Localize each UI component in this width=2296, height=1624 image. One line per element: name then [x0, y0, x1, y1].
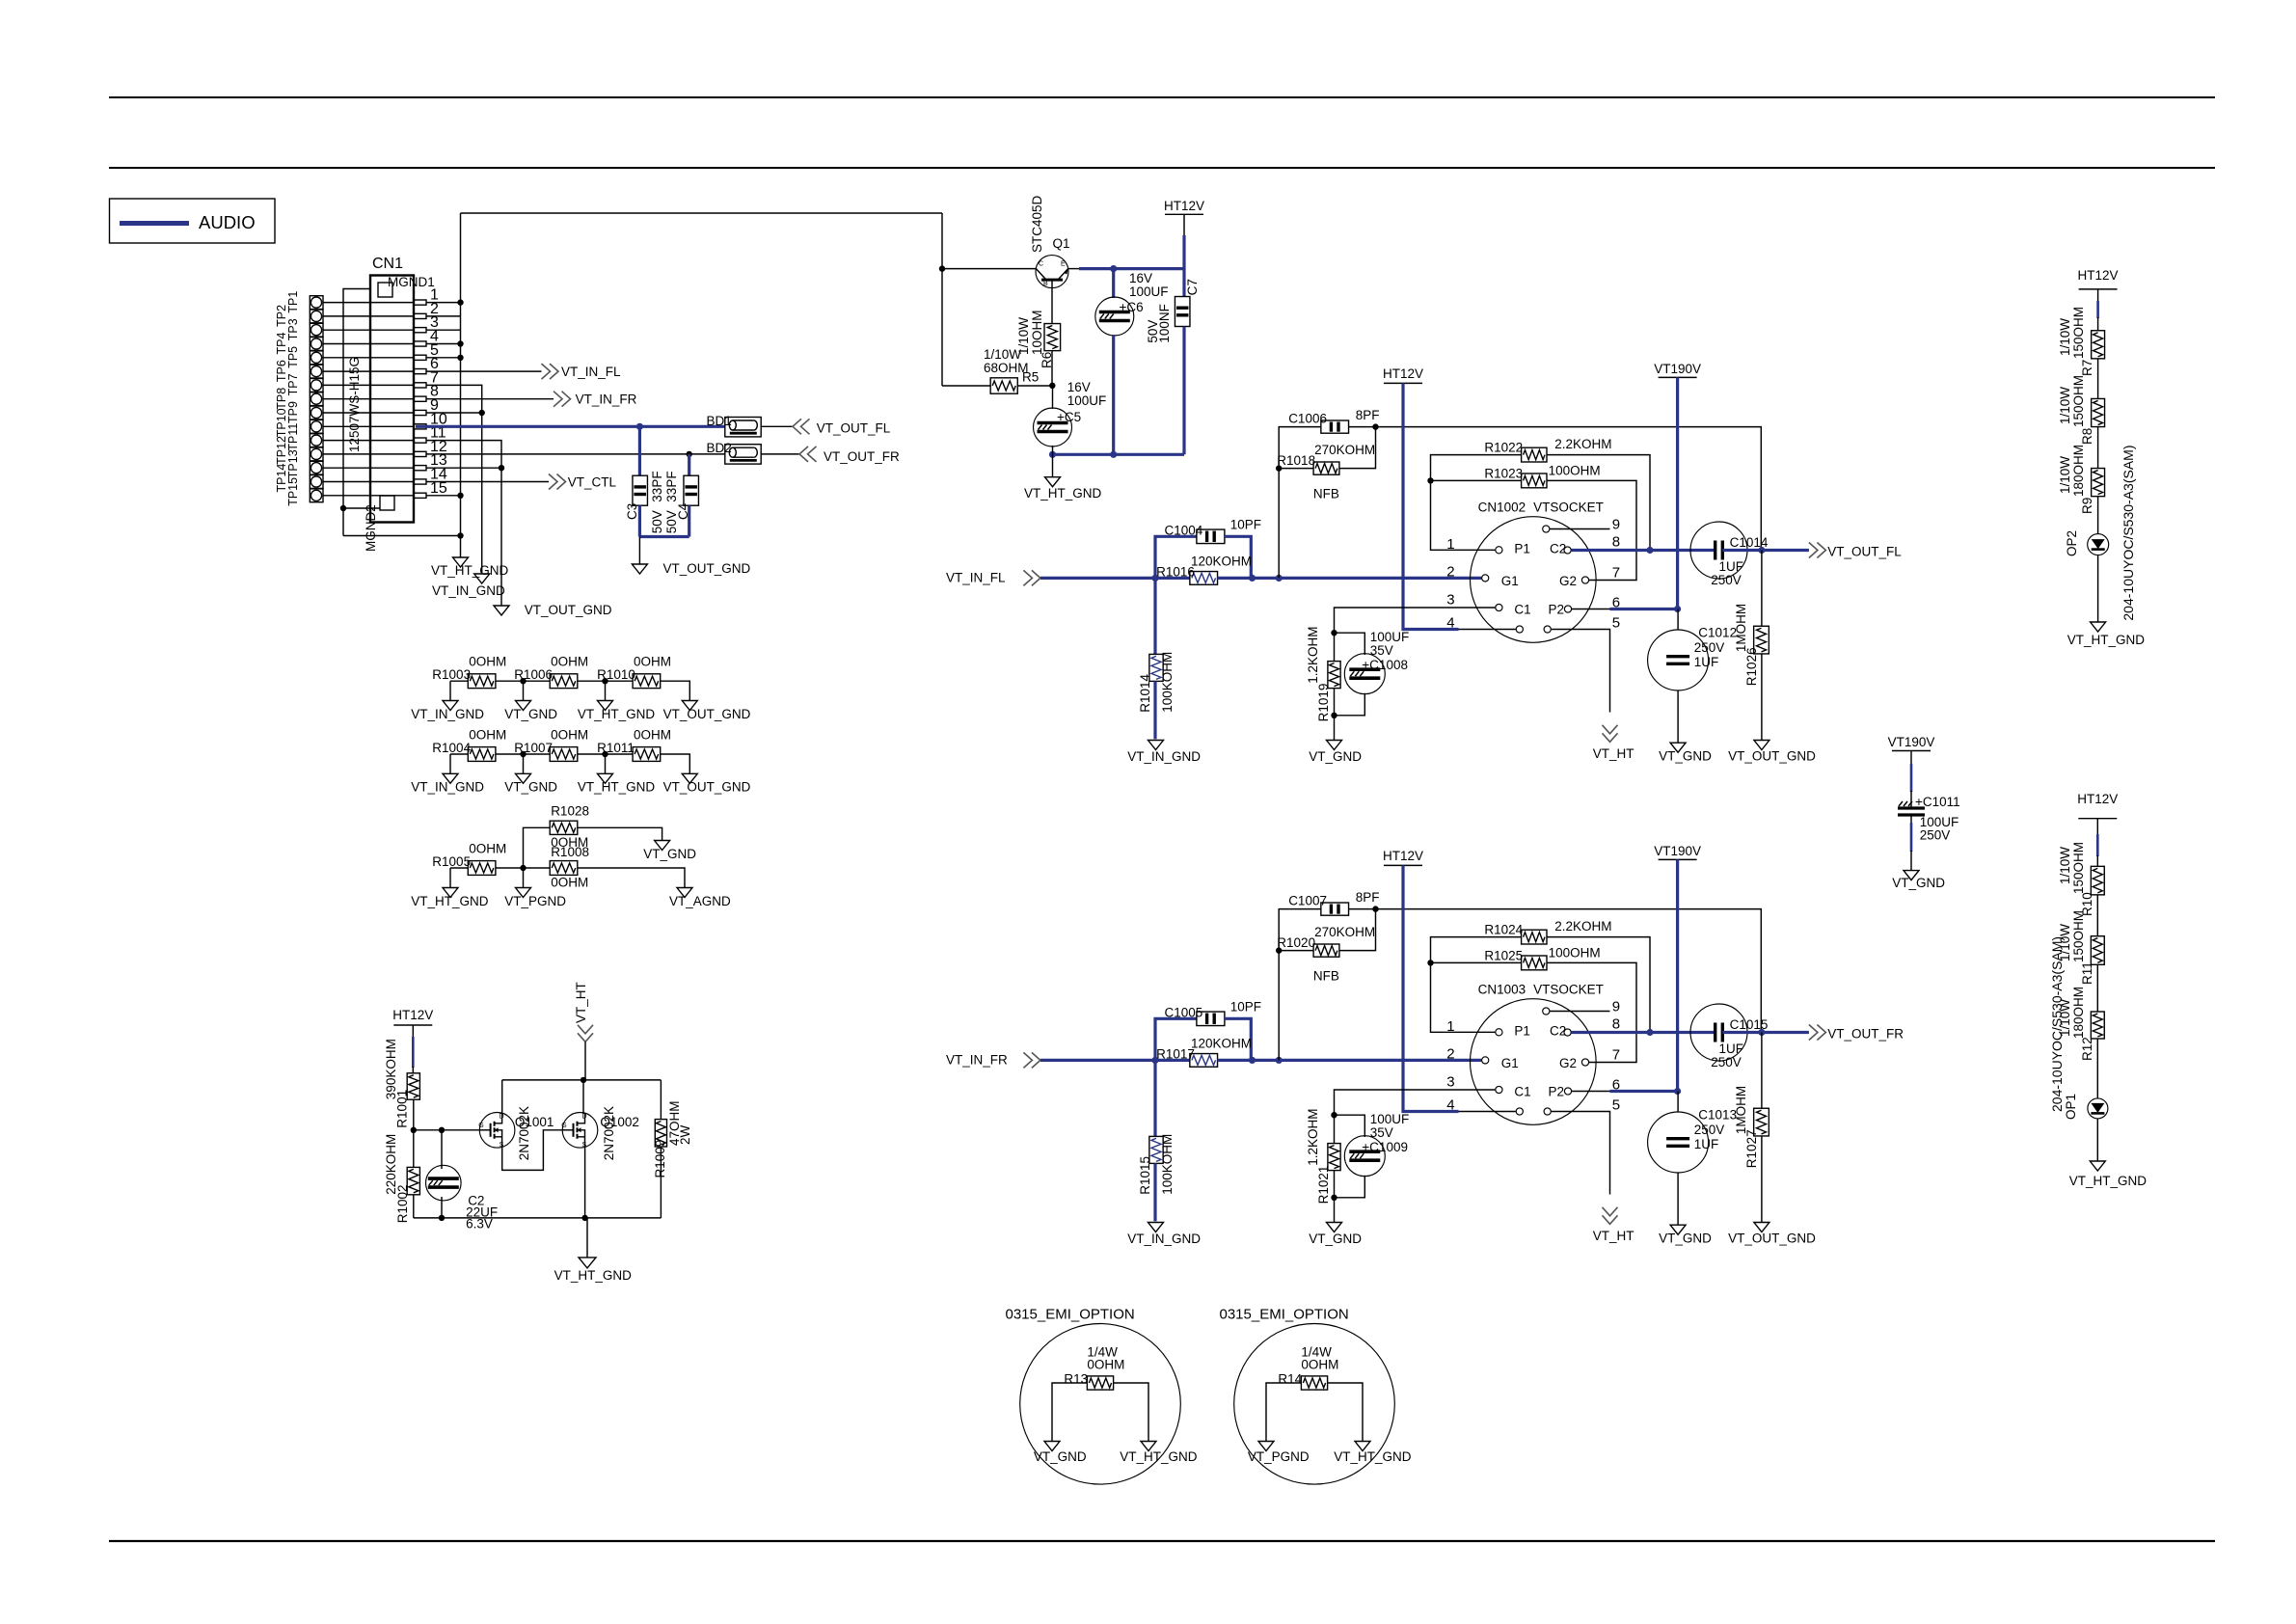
svg-text:STC405D: STC405D [1030, 195, 1044, 253]
svg-text:VT_CTL: VT_CTL [568, 475, 617, 490]
svg-text:1.2KOHM: 1.2KOHM [1306, 627, 1320, 684]
wire R1008 right to VT_AGND [578, 868, 685, 888]
resistor R1002 [407, 1167, 419, 1194]
wire HT12V stem chain2 [2096, 819, 2098, 835]
svg-text:100UF: 100UF [1129, 284, 1169, 299]
svg-text:MGND1: MGND1 [388, 275, 435, 289]
wire pin 13 to VT_OUT_GND bus [426, 467, 501, 469]
svg-text:0OHM: 0OHM [634, 655, 671, 669]
svg-text:R13: R13 [1064, 1372, 1088, 1387]
connector CN1 pin 4 stub [414, 341, 426, 346]
svg-text:7: 7 [1612, 1047, 1620, 1064]
wire R1018 left lead [1279, 468, 1313, 470]
wire HT12V stem chain1 [2097, 289, 2099, 302]
svg-text:0OHM: 0OHM [469, 727, 506, 742]
wire pin 7 to VT_IN_GND bus [426, 385, 482, 574]
svg-text:BD1: BD1 [707, 414, 732, 428]
svg-text:VT_HT_GND: VT_HT_GND [1120, 1449, 1198, 1464]
svg-text:CN1: CN1 [372, 256, 403, 272]
svg-text:4: 4 [1446, 1096, 1454, 1113]
svg-text:1UF: 1UF [1694, 1137, 1719, 1151]
capacitor C5 [1034, 408, 1072, 447]
ground VT_HT_GND under CN1 [453, 557, 469, 567]
socket pin 5 circle [1544, 626, 1551, 633]
resistor R8 [2092, 398, 2105, 426]
svg-text:VT_HT_GND: VT_HT_GND [1024, 486, 1102, 501]
wire shield bus vertical [460, 213, 462, 557]
transistor Q1 STC405D [1036, 256, 1068, 288]
resistor R13 [1087, 1376, 1113, 1390]
resistor R1005 [468, 861, 496, 876]
junction rowB b [602, 751, 608, 757]
wire OP2 to ground [2097, 555, 2099, 622]
wire TP13 to CN1 pin 13 [323, 467, 414, 469]
socket pin C1 circle [1496, 1086, 1502, 1093]
junction bias bottom [1331, 713, 1337, 718]
junction input node [1151, 1057, 1158, 1064]
svg-text:250V: 250V [1711, 573, 1742, 587]
svg-text:VT_GND: VT_GND [504, 780, 557, 795]
resistor R14 [1301, 1376, 1327, 1390]
svg-text:C1006: C1006 [1288, 411, 1327, 425]
test point TP3 [310, 323, 323, 337]
svg-text:R7: R7 [2080, 360, 2094, 376]
svg-text:VT_OUT_GND: VT_OUT_GND [663, 780, 751, 795]
svg-text:R1009: R1009 [653, 1140, 667, 1178]
svg-text:VT_OUT_GND: VT_OUT_GND [1728, 749, 1816, 764]
socket pin 4 circle [1516, 1108, 1523, 1115]
wire rowA link2 [578, 680, 633, 682]
svg-text:C1012: C1012 [1698, 625, 1737, 639]
wire C1011 bottom [1910, 815, 1912, 823]
svg-text:VTSOCKET: VTSOCKET [1533, 983, 1604, 997]
svg-text:50V: 50V [664, 510, 679, 533]
svg-text:R1020: R1020 [1277, 935, 1315, 950]
wire C1004 right (blue) [1225, 536, 1251, 578]
wire R1022 right to pin8 [1547, 455, 1650, 551]
capacitor C1011 [1898, 806, 1925, 809]
junction Q1002 source on rail [581, 1215, 587, 1221]
svg-text:AUDIO: AUDIO [199, 212, 256, 232]
wire C1011 bottom blue [1910, 823, 1913, 852]
svg-text:C3: C3 [625, 503, 639, 520]
wire TP12 to CN1 pin 12 [323, 453, 414, 455]
svg-text:HT12V: HT12V [1383, 366, 1423, 381]
svg-text:R1023: R1023 [1484, 467, 1523, 481]
wire output cap to flag (blue) [1722, 549, 1809, 552]
svg-text:100OHM: 100OHM [1549, 464, 1601, 478]
socket pin G1 circle [1482, 1057, 1489, 1064]
ground VT_HT_GND of chain2 [2090, 1161, 2105, 1171]
svg-text:1UF: 1UF [1719, 1042, 1744, 1056]
wire MGND1 left bus vertical [343, 289, 371, 536]
svg-text:1/10W: 1/10W [2058, 387, 2072, 424]
svg-text:100UF: 100UF [1370, 1112, 1410, 1126]
connector CN1 pin 6 stub [414, 369, 426, 374]
capacitor C1015 [1690, 1004, 1747, 1061]
wire emitter rail (blue) [1079, 267, 1184, 270]
svg-text:C1: C1 [1514, 603, 1530, 617]
svg-text:R1015: R1015 [1138, 1156, 1152, 1195]
resistor R1001 [407, 1073, 419, 1099]
svg-text:HT12V: HT12V [1383, 849, 1423, 863]
svg-text:R1005: R1005 [432, 854, 471, 869]
wire C2 top lead [441, 1130, 443, 1169]
junction input node [1151, 575, 1158, 582]
net flag VT_OUT_FR arrow [1809, 1025, 1826, 1041]
wire pin 11 to VT_OUT_GND bus [426, 441, 501, 606]
wire pin 8 to VT_IN_FR flag [426, 398, 554, 400]
wire C1011 to ground [1910, 851, 1912, 871]
ground VT_OUT_GND of channel [1754, 1223, 1769, 1232]
svg-text:S: S [582, 1142, 587, 1149]
svg-text:8: 8 [1612, 534, 1620, 551]
net flag VT_CTL arrow [549, 474, 566, 490]
wire pin 9 to VT_IN_GND bus [426, 412, 482, 414]
svg-text:R1004: R1004 [432, 741, 471, 755]
net flag VT_HT down arrow [1603, 1207, 1618, 1225]
wire C1004 right (blue) [1225, 1018, 1251, 1060]
resistor R1022 [1522, 447, 1547, 462]
svg-text:50V: 50V [650, 510, 664, 533]
resistor R1011 [633, 747, 661, 762]
svg-text:1/10W: 1/10W [2058, 847, 2072, 884]
svg-text:MGND2: MGND2 [364, 504, 378, 552]
svg-text:VT_HT_GND: VT_HT_GND [411, 894, 489, 908]
capacitor C6 [1095, 297, 1134, 336]
junction VT190V pin6 [1674, 1088, 1681, 1095]
wire R6 to node [1051, 351, 1053, 386]
svg-text:TP5: TP5 [286, 346, 300, 368]
svg-text:VT_AGND: VT_AGND [669, 894, 731, 908]
svg-text:R1016: R1016 [1156, 564, 1195, 579]
wire TP15 to CN1 pin 15 [323, 495, 414, 497]
junction MGND2 bus [340, 505, 346, 511]
ground VT_GND rowA [516, 701, 531, 711]
svg-text:15: 15 [430, 480, 447, 497]
wire HT12V stem black [412, 1025, 414, 1038]
wire output C2 to C1014 (blue) [1572, 1031, 1715, 1034]
ground VT_OUT_GND rowA [682, 701, 697, 711]
wire BD1 to VT_OUT_FL flag [761, 425, 793, 427]
wire R14 left to ground [1266, 1383, 1301, 1442]
net flag VT_OUT_FL arrow [1809, 543, 1826, 558]
wire pin 3 to shield bus [426, 329, 461, 331]
svg-text:C1005: C1005 [1165, 1005, 1203, 1019]
capacitor C1005 [1197, 1012, 1225, 1026]
capacitor C1014 [1690, 522, 1747, 579]
socket pin 4 circle [1516, 626, 1523, 633]
svg-text:0OHM: 0OHM [469, 842, 506, 856]
wire rowA gnd1 [449, 681, 451, 700]
bottom border line [109, 1540, 2215, 1542]
svg-text:VT_GND: VT_GND [643, 847, 696, 861]
tube socket CN1002 circle [1471, 517, 1597, 643]
svg-text:R12: R12 [2080, 1037, 2094, 1061]
svg-text:G2: G2 [1559, 1056, 1577, 1070]
svg-text:10PF: 10PF [1230, 999, 1261, 1014]
capacitor C1006 [1321, 420, 1349, 433]
wire NFB left vertical [1279, 427, 1321, 579]
svg-text:G: G [561, 1123, 566, 1129]
junction pin 1 on shield bus [457, 299, 463, 305]
wire heater black to pin4 [1459, 629, 1516, 631]
svg-text:D: D [500, 1114, 504, 1121]
wire output cap to flag (blue) [1722, 1031, 1809, 1034]
svg-text:180OHM: 180OHM [2071, 987, 2086, 1039]
svg-text:R1024: R1024 [1484, 923, 1523, 937]
svg-text:0OHM: 0OHM [1301, 1358, 1338, 1372]
wire R12 to OP1 [2096, 1039, 2098, 1098]
svg-text:VT_OUT_GND: VT_OUT_GND [663, 561, 751, 576]
wire center node up to R1028 [524, 827, 551, 868]
svg-text:VT_HT_GND: VT_HT_GND [554, 1268, 633, 1283]
svg-text:1/10W: 1/10W [2058, 456, 2072, 494]
svg-text:8PF: 8PF [1356, 408, 1380, 422]
junction C2 top branch [439, 1127, 445, 1133]
connector CN1 pin 3 stub [414, 328, 426, 333]
wire output node down to R1026 [1761, 551, 1763, 627]
ground VT_IN_GND [1148, 741, 1164, 750]
capacitor C7 [1175, 297, 1190, 327]
connector CN1 pin 11 stub [414, 438, 426, 443]
net flag VT_HT down arrow [1603, 725, 1618, 743]
resistor R6 [1044, 324, 1061, 351]
svg-text:204-10UYOC/S530-A3(SAM): 204-10UYOC/S530-A3(SAM) [2049, 936, 2065, 1112]
wire rowB link1 [496, 753, 550, 755]
LED OP2 [2088, 534, 2109, 555]
svg-text:OP1: OP1 [2064, 1094, 2078, 1120]
svg-text:35V: 35V [1370, 1125, 1393, 1140]
svg-text:VT_HT_GND: VT_HT_GND [2069, 1174, 2147, 1188]
wire TP1 to CN1 pin 1 [323, 302, 414, 304]
svg-text:R1007: R1007 [514, 741, 553, 755]
svg-text:C1013: C1013 [1698, 1107, 1737, 1122]
resistor R1014 [1149, 654, 1163, 681]
svg-text:G2: G2 [1559, 574, 1577, 588]
net flag VT_IN_FL arrow [542, 364, 559, 379]
resistor R1019 [1328, 662, 1340, 689]
svg-text:5: 5 [1612, 614, 1620, 631]
junction R1023 left [1427, 477, 1433, 483]
svg-text:C2: C2 [1550, 1023, 1566, 1038]
wire drain rail horizontal [502, 1079, 662, 1081]
wire pin 4 to shield bus [426, 343, 461, 345]
ground VT_HT_GND under C5 [1045, 477, 1061, 487]
svg-text:250V: 250V [1694, 640, 1725, 655]
ground VT_HT_GND rowA [598, 701, 613, 711]
svg-text:NFB: NFB [1313, 968, 1339, 983]
wire pin6 node down to C1012 [1677, 609, 1679, 631]
wire HT12V heater feed (blue) [1403, 865, 1459, 1111]
svg-text:3: 3 [1446, 1074, 1454, 1091]
resistor R1016 [1190, 572, 1218, 585]
svg-text:VT_GND: VT_GND [504, 707, 557, 721]
wire NFB line to output node [1349, 909, 1762, 1033]
wire HT12V heater feed (blue) [1403, 383, 1459, 629]
svg-text:VT_PGND: VT_PGND [504, 894, 566, 908]
svg-text:100KOHM: 100KOHM [1160, 1134, 1175, 1195]
svg-text:VT_OUT_FR: VT_OUT_FR [824, 449, 900, 464]
ground VT_HT_GND of mosfet block [579, 1258, 596, 1268]
svg-text:C1007: C1007 [1288, 893, 1327, 907]
junction node B [1249, 1057, 1256, 1064]
junction center node PGND [520, 865, 526, 871]
resistor R1025 [1522, 956, 1547, 970]
svg-text:VT_IN_GND: VT_IN_GND [432, 583, 505, 598]
svg-text:1UF: 1UF [1694, 655, 1719, 669]
wire output C2 to C1014 (blue) [1572, 549, 1715, 552]
svg-text:TP3: TP3 [286, 318, 300, 340]
svg-text:+C1011: +C1011 [1915, 795, 1960, 809]
svg-text:1: 1 [1446, 536, 1454, 553]
connector CN1 pin 12 stub [414, 451, 426, 456]
net flag VT_OUT_FL arrow [793, 419, 810, 434]
ground VT_OUT_GND under CN1 [494, 606, 509, 615]
wire Q1 base to R6 [1051, 288, 1053, 324]
wire R series to grid (blue) [1218, 577, 1482, 580]
socket pin G1 circle [1482, 575, 1489, 582]
wire rowB gnd1 [449, 754, 451, 773]
ground VT_HT_GND rowB [598, 773, 613, 783]
ground VT_GND of bias [1327, 1223, 1342, 1232]
svg-text:TP9: TP9 [286, 401, 300, 423]
svg-text:VT_IN_FL: VT_IN_FL [561, 365, 621, 379]
svg-text:G1: G1 [1501, 574, 1519, 588]
wire input node down (blue) [1153, 1060, 1156, 1136]
svg-text:2: 2 [1446, 564, 1454, 581]
svg-text:VT_HT_GND: VT_HT_GND [578, 707, 656, 721]
test point TP7 [310, 379, 323, 392]
svg-text:VT_HT: VT_HT [1593, 1229, 1634, 1243]
svg-text:VT_OUT_GND: VT_OUT_GND [525, 603, 612, 617]
net flag VT_IN_FR arrow [554, 392, 571, 407]
junction rowA a [520, 678, 526, 684]
wire NFB line to output node [1349, 427, 1762, 551]
svg-text:VT_IN_GND: VT_IN_GND [411, 780, 484, 795]
svg-text:C: C [1039, 261, 1043, 268]
resistor R1006 [550, 674, 578, 689]
wire R1023 right to G2 [1547, 480, 1636, 580]
ground VT_IN_GND rowA [443, 701, 458, 711]
svg-text:R9: R9 [2080, 498, 2094, 514]
svg-text:R1014: R1014 [1138, 674, 1152, 713]
svg-text:BD2: BD2 [707, 441, 732, 455]
socket pin P1 circle [1496, 547, 1502, 554]
junction pin 15 on shield bus [457, 493, 463, 499]
wire R1023 left lead [1431, 961, 1522, 963]
wire bias bottom link [1335, 693, 1365, 716]
wire up to C1004 (blue) [1155, 1018, 1197, 1060]
svg-text:VT190V: VT190V [1654, 362, 1701, 376]
top border line 2 [109, 167, 2215, 169]
wire pin 6 to VT_IN_FL flag [426, 370, 542, 372]
socket pin G2 circle [1581, 577, 1588, 583]
ground VT_PGND [516, 888, 531, 898]
svg-text:B: B [1043, 281, 1048, 287]
wire pin 5 to shield bus [426, 357, 461, 359]
junction C6 bottom on rail [1110, 451, 1117, 458]
svg-text:HT12V: HT12V [1164, 199, 1204, 213]
wire R5 to node [1017, 385, 1052, 387]
wire pin5 to VT_HT [1552, 1112, 1610, 1195]
wire rowA row left lead [450, 680, 468, 682]
svg-text:150OHM: 150OHM [2071, 842, 2086, 894]
svg-text:VT_IN_GND: VT_IN_GND [411, 707, 484, 721]
resistor R1010 [633, 674, 661, 689]
capacitor C2 [426, 1165, 462, 1201]
junction MGND bottom to shield bus [457, 532, 463, 538]
svg-text:R1028: R1028 [551, 804, 589, 819]
test point TP13 [310, 461, 323, 474]
capacitor C1012 [1648, 630, 1709, 690]
resistor R1009 [655, 1120, 666, 1147]
ground VT_IN_GND [1148, 1223, 1164, 1232]
svg-text:6.3V: 6.3V [466, 1216, 493, 1231]
junction rowA b [602, 678, 608, 684]
svg-text:R1019: R1019 [1316, 684, 1331, 722]
junction Q1 base node [939, 265, 945, 271]
wire pin6 node down to C1012 [1677, 1092, 1679, 1113]
ground VT_GND rowB [516, 773, 531, 783]
wire NFB left vertical [1279, 909, 1321, 1061]
svg-text:150OHM: 150OHM [2071, 375, 2086, 427]
junction R5-R6-C5 node [1049, 383, 1055, 389]
junction VT_HT drain rail [581, 1077, 586, 1083]
wire chain2 blue segment [2096, 834, 2099, 856]
wire pin 9 stub [1550, 1011, 1609, 1013]
resistor R1024 [1522, 930, 1547, 944]
junction C6 top [1110, 265, 1117, 272]
socket pin 9 circle [1543, 526, 1550, 532]
svg-text:TP1: TP1 [286, 291, 300, 313]
svg-text:NFB: NFB [1313, 486, 1339, 501]
svg-text:2.2KOHM: 2.2KOHM [1554, 437, 1611, 451]
resistor R1008 [550, 861, 578, 876]
AUDIO legend blue line [120, 221, 189, 226]
wire C3 branch vertical (blue) [638, 426, 641, 475]
AUDIO legend box [110, 199, 276, 243]
svg-text:+C1008: +C1008 [1362, 658, 1408, 672]
resistor R1023 [1522, 474, 1547, 488]
junction bias node [1331, 630, 1337, 636]
svg-text:R1017: R1017 [1156, 1046, 1195, 1061]
wire TP7 to CN1 pin 7 [323, 384, 414, 386]
resistor R1026 [1754, 626, 1769, 654]
resistor R1020 [1313, 944, 1339, 957]
svg-text:+C5: +C5 [1057, 410, 1081, 424]
test point TP4 [310, 338, 323, 351]
wire pin 12 to BD2 [426, 453, 725, 455]
svg-text:VT_OUT_GND: VT_OUT_GND [1728, 1232, 1816, 1246]
ferrite bead BD1 [725, 418, 761, 437]
wire to R1001 [412, 1067, 414, 1073]
ground VT_HT_GND under R1005 [443, 888, 458, 898]
wire R1022 right to pin8 [1547, 937, 1650, 1033]
wire pin 14 to VT_CTL flag [426, 481, 549, 483]
svg-text:P2: P2 [1549, 603, 1565, 617]
svg-text:VT_PGND: VT_PGND [1248, 1449, 1310, 1464]
test point TP6 [310, 365, 323, 378]
transistor Q1002 2N7002K [562, 1113, 598, 1149]
resistor R1003 [468, 674, 496, 689]
wire HT12V stem [1183, 214, 1185, 236]
wire pin3 to bias network [1335, 1090, 1496, 1144]
wire pin 9 stub [1550, 528, 1609, 530]
svg-text:250V: 250V [1694, 1123, 1725, 1137]
svg-text:204-10UYOC/S530-A3(SAM): 204-10UYOC/S530-A3(SAM) [2120, 446, 2136, 621]
wire input node down (blue) [1153, 578, 1156, 654]
